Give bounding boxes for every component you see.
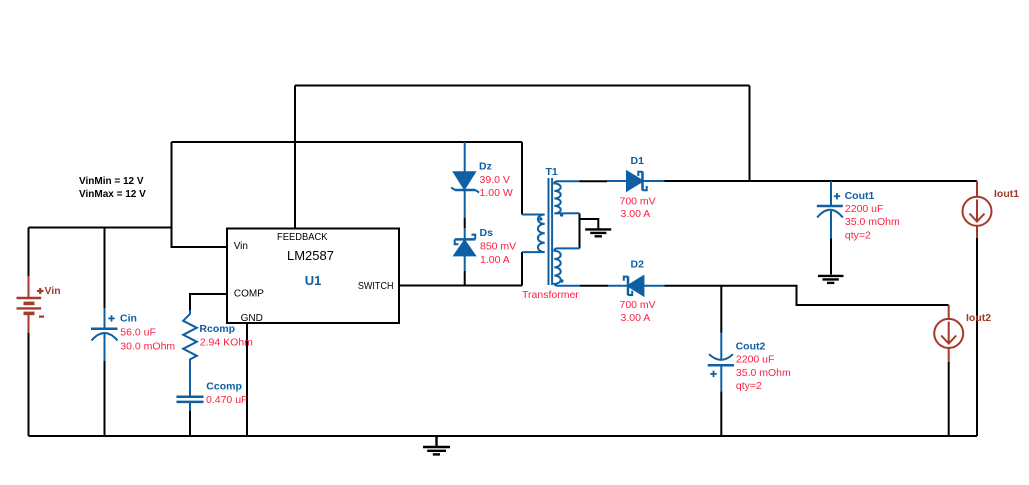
- wire: battery bottom to ground rail: [28, 333, 30, 436]
- ground: main bottom ground symbol: [423, 436, 450, 454]
- svg-text:COMP: COMP: [234, 288, 264, 299]
- wire: D1 to output node: [665, 180, 978, 182]
- svg-text:Iout2: Iout2: [966, 312, 991, 324]
- svg-text:850 mV: 850 mV: [480, 241, 516, 253]
- wire: top-left Vin rail: [29, 227, 172, 229]
- svg-text:LM2587: LM2587: [287, 248, 334, 263]
- wire: primary top vertical: [521, 142, 523, 215]
- capacitor Cin: [91, 308, 118, 361]
- wire: Cout2 branch bottom black: [720, 391, 722, 436]
- transformer secondary1 phase dot: [560, 213, 563, 216]
- svg-text:2.94 KOhm: 2.94 KOhm: [200, 336, 253, 348]
- svg-text:Cout1: Cout1: [845, 190, 875, 202]
- svg-text:D1: D1: [631, 155, 645, 167]
- wire: FEEDBACK pin vertical: [294, 86, 296, 229]
- svg-text:3.00 A: 3.00 A: [621, 208, 651, 220]
- capacitor Ccomp: [177, 362, 204, 411]
- resistor Rcomp: [183, 310, 197, 362]
- diode Ds schottky: [454, 228, 475, 271]
- capacitor Cout1: [817, 181, 843, 239]
- svg-text:Dz: Dz: [479, 161, 492, 173]
- wire: SWITCH pin to transformer: [399, 285, 522, 287]
- wire: center tap vertical: [579, 213, 581, 248]
- svg-text:56.0 uF: 56.0 uF: [120, 327, 156, 339]
- svg-text:Iout1: Iout1: [994, 188, 1019, 200]
- wire: Vin rail y=142: [172, 141, 523, 143]
- wire: Ccomp bottom to ground rail: [189, 411, 191, 436]
- wire: feedback right vertical: [749, 86, 751, 182]
- transformer T1 core: [549, 178, 553, 285]
- transformer T1 secondary 2 winding: [554, 248, 580, 285]
- svg-text:Rcomp: Rcomp: [199, 323, 235, 335]
- wire: Iout2 return: [948, 362, 950, 436]
- op-amp U1 LM2587 box: [227, 229, 399, 324]
- svg-text:39.0 V: 39.0 V: [480, 174, 510, 186]
- transformer secondary2 phase dot: [560, 279, 563, 282]
- wire: feedback top rail: [295, 85, 750, 87]
- capacitor Cout2: [708, 333, 734, 392]
- svg-text:SWITCH: SWITCH: [358, 281, 394, 292]
- diode D2 schottky: [608, 276, 665, 295]
- svg-text:0.470 uF: 0.470 uF: [206, 394, 247, 406]
- wire: primary bottom vertical: [521, 252, 523, 286]
- wire: bottom ground rail: [29, 435, 978, 437]
- wire: secondary1 to D1: [580, 180, 608, 182]
- ground: Cout1 ground symbol: [818, 276, 844, 283]
- wire: snubber black segment lower: [464, 271, 466, 286]
- current source Iout2: [934, 305, 963, 362]
- wire: battery top: [28, 228, 30, 277]
- transformer primary phase dot: [539, 217, 542, 220]
- diode Dz zener: [451, 142, 479, 218]
- svg-text:Ds: Ds: [480, 227, 494, 239]
- svg-text:Ccomp: Ccomp: [206, 380, 242, 392]
- svg-text:D2: D2: [631, 259, 645, 271]
- svg-text:Vin: Vin: [45, 285, 61, 297]
- svg-text:U1: U1: [305, 273, 322, 288]
- svg-text:Transformer: Transformer: [522, 289, 579, 301]
- wire: GND pin vertical: [246, 323, 248, 436]
- svg-text:2200 uF: 2200 uF: [845, 203, 884, 215]
- svg-text:Vin: Vin: [234, 241, 248, 252]
- wire: D2 to Iout2: [665, 286, 949, 305]
- svg-text:Cin: Cin: [120, 313, 137, 325]
- wire: snubber black segment upper: [464, 218, 466, 228]
- svg-text:VinMax = 12 V: VinMax = 12 V: [79, 189, 146, 200]
- svg-text:700 mV: 700 mV: [620, 196, 656, 208]
- svg-text:GND: GND: [241, 313, 263, 324]
- svg-text:qty=2: qty=2: [845, 229, 871, 241]
- svg-text:1.00 A: 1.00 A: [480, 254, 510, 266]
- battery Vin: [17, 276, 45, 333]
- wire: left vertical to Vin pin: [172, 142, 228, 247]
- svg-text:35.0 mOhm: 35.0 mOhm: [736, 367, 791, 379]
- transformer T1 secondary 1 winding: [554, 181, 579, 213]
- svg-text:30.0 mOhm: 30.0 mOhm: [120, 340, 175, 352]
- current source Iout1: [963, 181, 992, 238]
- transformer T1 primary winding: [522, 215, 545, 253]
- diode D1 schottky: [607, 172, 665, 191]
- svg-text:3.00 A: 3.00 A: [621, 312, 651, 324]
- svg-text:T1: T1: [546, 166, 558, 178]
- wire: Cin branch top: [104, 228, 106, 310]
- wire: secondary2 to D2: [580, 285, 608, 287]
- wire: center tap to ground: [580, 219, 599, 229]
- svg-text:qty=2: qty=2: [736, 380, 762, 392]
- svg-text:1.00 W: 1.00 W: [480, 187, 513, 199]
- ground: transformer center-tap ground symbol: [585, 229, 611, 236]
- svg-text:700 mV: 700 mV: [620, 299, 656, 311]
- wire: Iout1 return: [976, 238, 978, 436]
- svg-text:2200 uF: 2200 uF: [736, 354, 775, 366]
- svg-text:Cout2: Cout2: [736, 340, 766, 352]
- svg-text:FEEDBACK: FEEDBACK: [277, 232, 328, 243]
- svg-text:35.0 mOhm: 35.0 mOhm: [845, 216, 900, 228]
- wire: Cout2 branch top black: [720, 286, 722, 333]
- wire: COMP pin to Rcomp: [190, 294, 227, 311]
- wire: Cin branch bottom: [104, 360, 106, 436]
- wire: Cout1 branch black: [830, 239, 832, 275]
- svg-text:VinMin = 12 V: VinMin = 12 V: [79, 176, 144, 187]
